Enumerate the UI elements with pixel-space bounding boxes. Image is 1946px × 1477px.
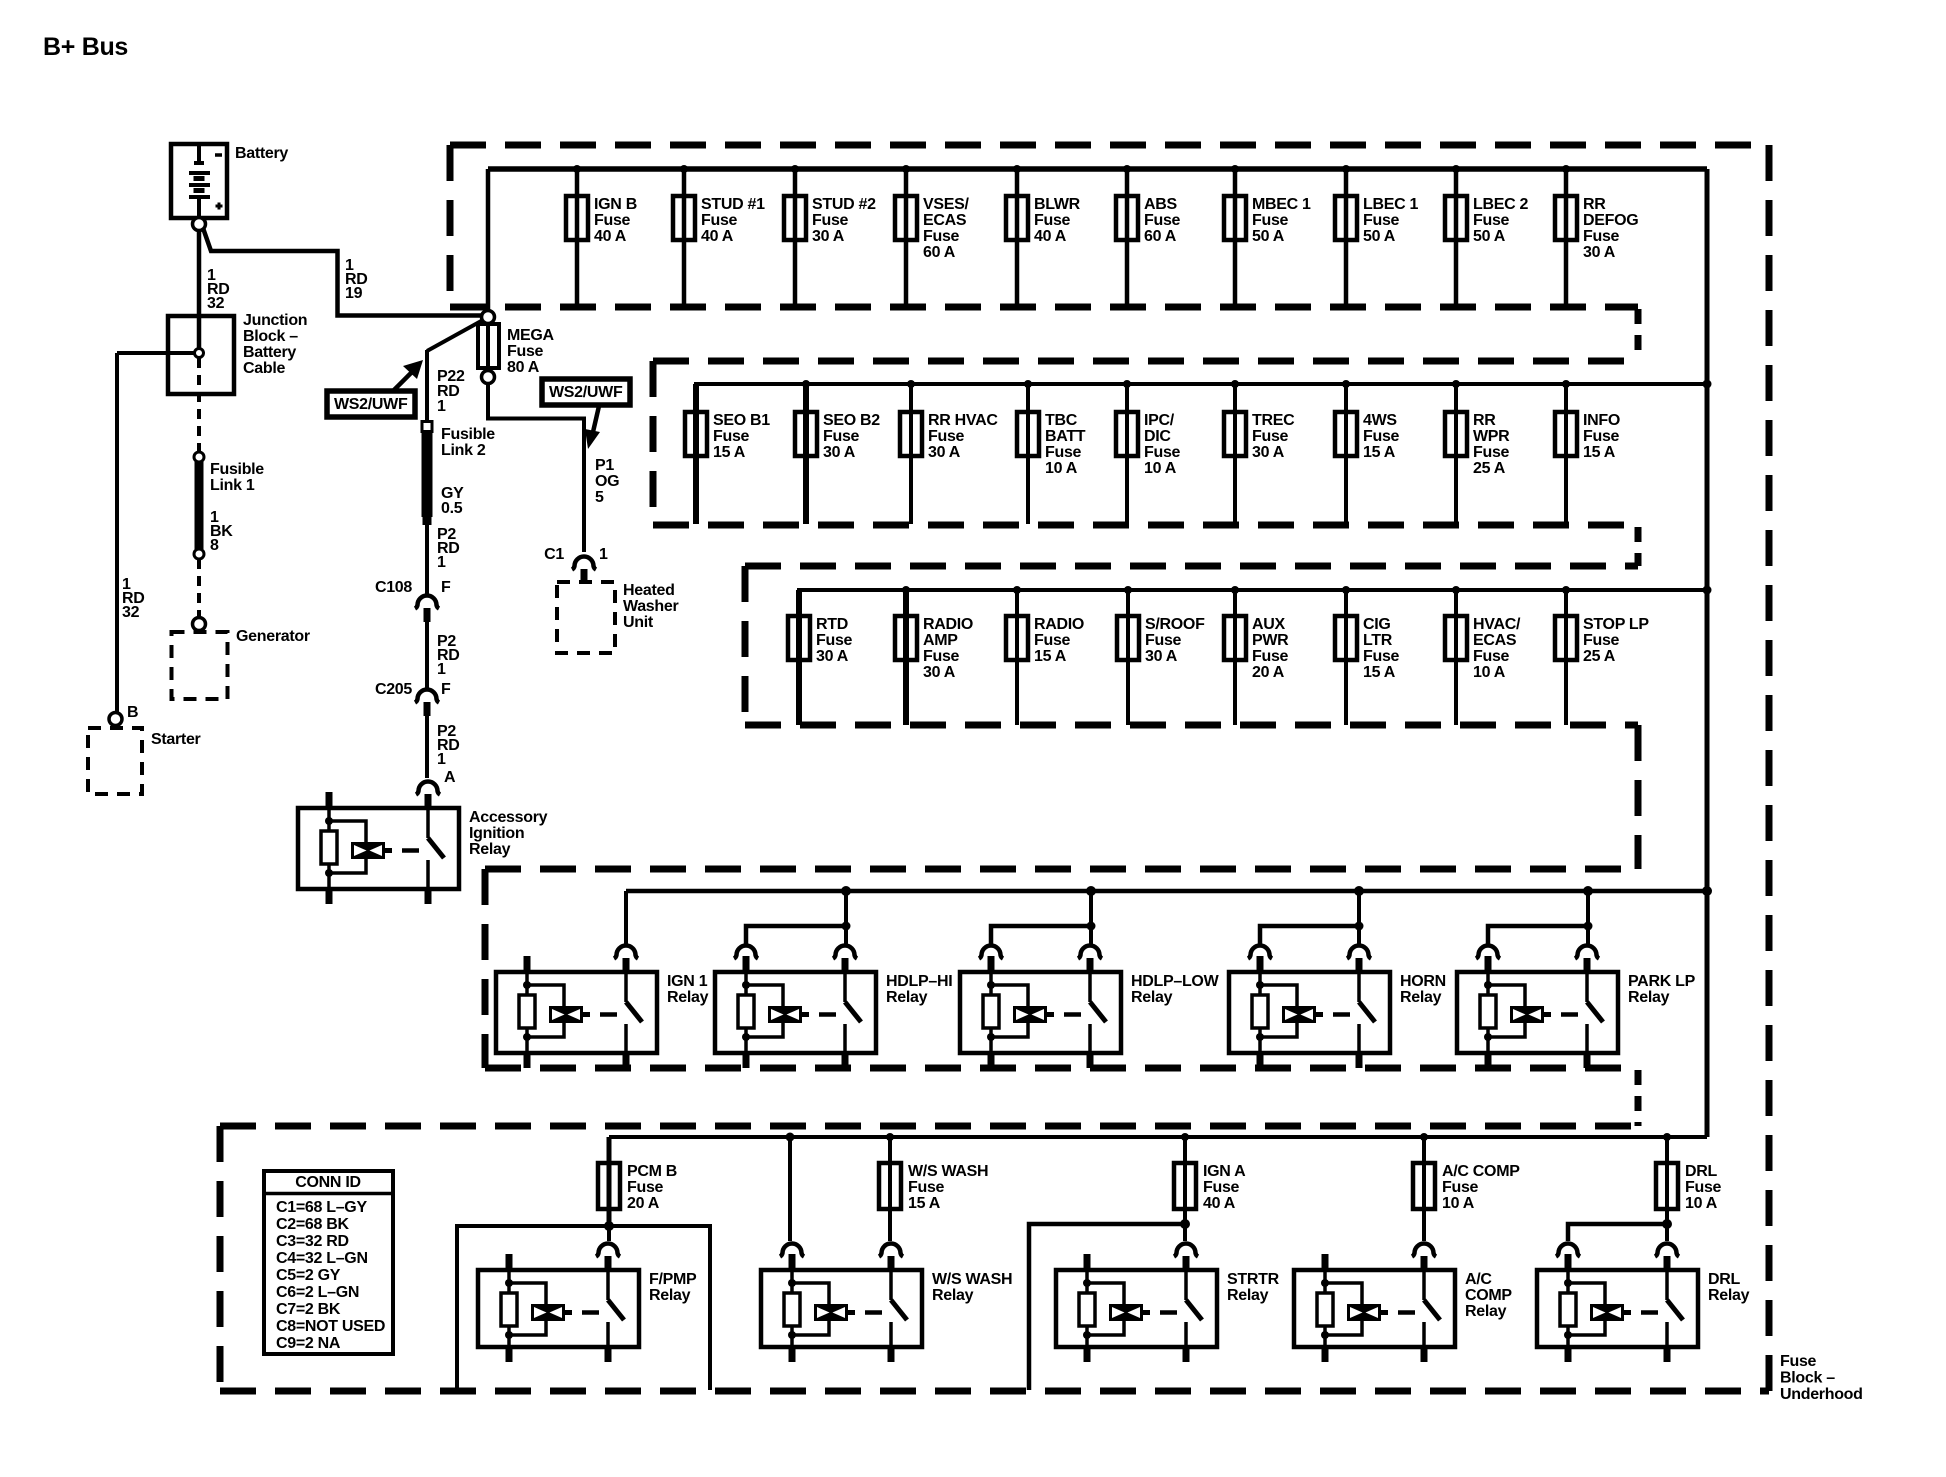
svg-text:IGN 1Relay: IGN 1Relay <box>667 973 709 1006</box>
svg-text:B+ Bus: B+ Bus <box>43 33 128 61</box>
fuse block underhood dashed outline - top edge <box>450 142 1769 149</box>
dashed wire fusible link 1 to generator <box>197 559 201 617</box>
node PCM B fuse output <box>604 1221 614 1231</box>
fuse RADIO <box>1006 586 1084 725</box>
row2 box bottom dashed edge <box>653 522 1638 529</box>
fuse RR WPR <box>1445 380 1510 524</box>
row3 box bottom dashed edge <box>745 722 1638 729</box>
callout WS2/UWF (left) <box>327 391 415 417</box>
svg-text:GY0.5: GY0.5 <box>441 485 464 517</box>
fuse SEO B2 <box>795 380 880 524</box>
CONN ID table <box>264 1171 393 1354</box>
fusible link 2 <box>422 422 433 526</box>
bottom row left dashed edge <box>217 1126 224 1391</box>
row2 bus junction at trunk <box>1703 380 1712 389</box>
relay row bus <box>626 889 1707 894</box>
fuse STUD #1 <box>673 165 765 304</box>
relay HDLP-HI <box>715 946 952 1069</box>
svg-text:C108: C108 <box>375 579 412 596</box>
svg-text:1: 1 <box>599 546 608 563</box>
dashed connector row2-row3 <box>1635 527 1642 566</box>
svg-text:WS2/UWF: WS2/UWF <box>334 396 408 413</box>
connector C1 <box>572 557 596 570</box>
row2 bus <box>696 384 1707 524</box>
fuse IGN A <box>1174 1133 1246 1224</box>
fuse W/S WASH <box>879 1133 988 1241</box>
svg-text:INFOFuse15 A: INFOFuse15 A <box>1583 412 1620 461</box>
wire bus drop to HORN relay <box>1260 886 1364 946</box>
accessory ignition relay <box>298 782 548 905</box>
row3 box left dashed edge <box>742 566 749 725</box>
relay A/C COMP <box>1294 1244 1512 1362</box>
fuse block dashed outline - right edge <box>1766 145 1773 1391</box>
wire junction block to starter branch <box>117 351 194 355</box>
svg-text:RTDFuse30 A: RTDFuse30 A <box>816 616 853 665</box>
wire C205 to accessory ignition relay <box>425 716 429 778</box>
bottom bus <box>609 1135 1707 1139</box>
svg-text:F: F <box>441 681 451 698</box>
wire P22 RD 1 <box>425 350 429 421</box>
wire bus drop to PARK LP relay <box>1488 886 1593 946</box>
wire MEGA to heated washer unit <box>488 383 584 552</box>
fuse ABS <box>1116 165 1181 304</box>
fuse LBEC 2 <box>1445 165 1529 304</box>
wire MEGA node to P22 wire (diagonal) <box>427 320 483 351</box>
callout WS2/UWF (right) <box>542 379 630 405</box>
wire bus drop to HDLP-LOW relay <box>991 886 1096 946</box>
wire bus to IGN 1 relay switch <box>624 891 628 945</box>
wire DRL fuse to relay pins <box>1568 1219 1672 1241</box>
svg-text:C1: C1 <box>544 546 564 563</box>
row2 box left dashed edge <box>650 361 657 525</box>
row3 bus junction at trunk <box>1703 586 1712 595</box>
fuse A/C COMP <box>1413 1133 1520 1241</box>
wire battery to 1 RD 19 run <box>203 228 483 316</box>
relay W/S WASH <box>761 1244 1012 1362</box>
svg-text:B: B <box>127 704 138 721</box>
fuse S/ROOF <box>1117 586 1205 725</box>
junction block - battery cable <box>168 316 234 394</box>
battery positive node <box>193 218 206 231</box>
wire F/PMP distribution loop <box>457 1226 710 1390</box>
fuse PCM B <box>598 1137 677 1226</box>
relay HORN <box>1229 946 1446 1069</box>
relay row bottom dashed edge <box>485 1065 1638 1072</box>
row3 box top dashed edge <box>745 563 1638 570</box>
fuse TREC <box>1224 380 1295 524</box>
MEGA fuse top node <box>482 311 495 324</box>
row2 box top dashed edge <box>653 358 1638 365</box>
fuse RR HVAC <box>900 380 998 524</box>
fuse CIG LTR <box>1335 586 1400 725</box>
relay bus junction at trunk <box>1702 886 1712 896</box>
fuse INFO <box>1555 380 1620 524</box>
starter (dashed box) <box>88 728 142 794</box>
arrow WS2/UWF left <box>394 360 423 390</box>
dashed connector relay row-bottom row <box>1635 1070 1642 1126</box>
svg-text:CONN ID: CONN ID <box>295 1174 360 1191</box>
relay STRTR <box>1056 1244 1280 1362</box>
fuse HVAC/ECAS <box>1445 586 1521 725</box>
svg-text:Starter: Starter <box>151 731 201 748</box>
wire C108 to C205 <box>425 622 429 688</box>
relay F/PMP <box>478 1244 697 1362</box>
fusible link 1 <box>194 452 204 559</box>
connector C205 <box>415 690 439 703</box>
svg-text:ABSFuse60 A: ABSFuse60 A <box>1144 196 1181 245</box>
fuse MBEC 1 <box>1224 165 1311 304</box>
wire PCM B to F/PMP relay switch <box>607 1226 611 1241</box>
bottom row top dashed edge <box>220 1123 1638 1130</box>
dashed wire junction block to fusible link 1 <box>197 358 201 452</box>
svg-text:Battery: Battery <box>235 145 288 162</box>
heated washer unit (dashed box) <box>557 582 615 653</box>
wire battery to junction block <box>197 230 202 353</box>
fuse RR DEFOG <box>1555 165 1638 304</box>
row1 box left dashed edge <box>447 145 454 307</box>
fuse LBEC 1 <box>1335 165 1419 304</box>
battery B1 <box>171 144 227 218</box>
MEGA fuse bottom node <box>482 371 495 384</box>
relay IGN 1 <box>496 946 709 1069</box>
wire row1 bus to MEGA fuse <box>486 169 491 311</box>
svg-text:C205: C205 <box>375 681 412 698</box>
svg-text:4WSFuse15 A: 4WSFuse15 A <box>1363 412 1400 461</box>
svg-text:HORNRelay: HORNRelay <box>1400 973 1446 1006</box>
wire to starter B terminal <box>115 353 119 713</box>
wire bus to W/S WASH relay coil <box>786 1133 795 1242</box>
fuse STUD #2 <box>784 165 876 304</box>
generator node <box>193 618 206 631</box>
row1 B+ bus <box>488 166 1707 172</box>
fuse VSES/ECAS <box>895 165 969 304</box>
fuse 4WS <box>1335 380 1400 524</box>
wire IGN A branch to left exit <box>1029 1219 1190 1390</box>
fuse STOP LP <box>1555 586 1649 725</box>
relay row top dashed edge <box>485 866 1638 873</box>
fuse IGN B <box>566 165 637 304</box>
fuse IPC/DIC <box>1116 380 1181 524</box>
fuse BLWR <box>1006 165 1081 304</box>
relay HDLP-LOW <box>960 946 1220 1069</box>
svg-text:AUXPWRFuse20 A: AUXPWRFuse20 A <box>1252 616 1289 681</box>
svg-text:Generator: Generator <box>236 628 310 645</box>
relay DRL <box>1537 1244 1750 1362</box>
row3 bus <box>799 590 1707 725</box>
fuse TBC BATT <box>1017 380 1086 524</box>
relay PARK LP <box>1457 946 1696 1069</box>
MEGA fuse <box>478 323 499 371</box>
svg-text:DRLFuse10 A: DRLFuse10 A <box>1685 1163 1722 1212</box>
dashed connector row3-relay row <box>1635 725 1642 869</box>
dashed connector row1-row2 <box>1635 309 1642 361</box>
generator (dashed box) <box>172 632 228 699</box>
fuse SEO B1 <box>685 384 770 524</box>
svg-text:F: F <box>441 579 451 596</box>
svg-text:WS2/UWF: WS2/UWF <box>549 384 623 401</box>
starter node B <box>109 713 122 726</box>
fuse block dashed outline - bottom edge <box>220 1388 1769 1395</box>
junction block internal node <box>195 349 204 358</box>
relay row left dashed edge <box>482 869 489 1068</box>
svg-text:F/PMPRelay: F/PMPRelay <box>649 1271 697 1304</box>
connector C108 <box>415 596 439 609</box>
right trunk wire <box>1705 169 1710 1137</box>
fuse AUX PWR <box>1224 586 1289 725</box>
wire bus drop to HDLP-HI relay <box>746 886 851 946</box>
fuse DRL <box>1656 1133 1722 1224</box>
row1 box bottom dashed edge <box>450 304 1638 311</box>
fuse RTD <box>788 590 853 725</box>
wire fusible link 2 to C108 <box>425 525 429 594</box>
fuse RADIO AMP <box>895 586 973 725</box>
svg-text:A: A <box>444 769 456 786</box>
arrow WS2/UWF right <box>585 406 600 449</box>
